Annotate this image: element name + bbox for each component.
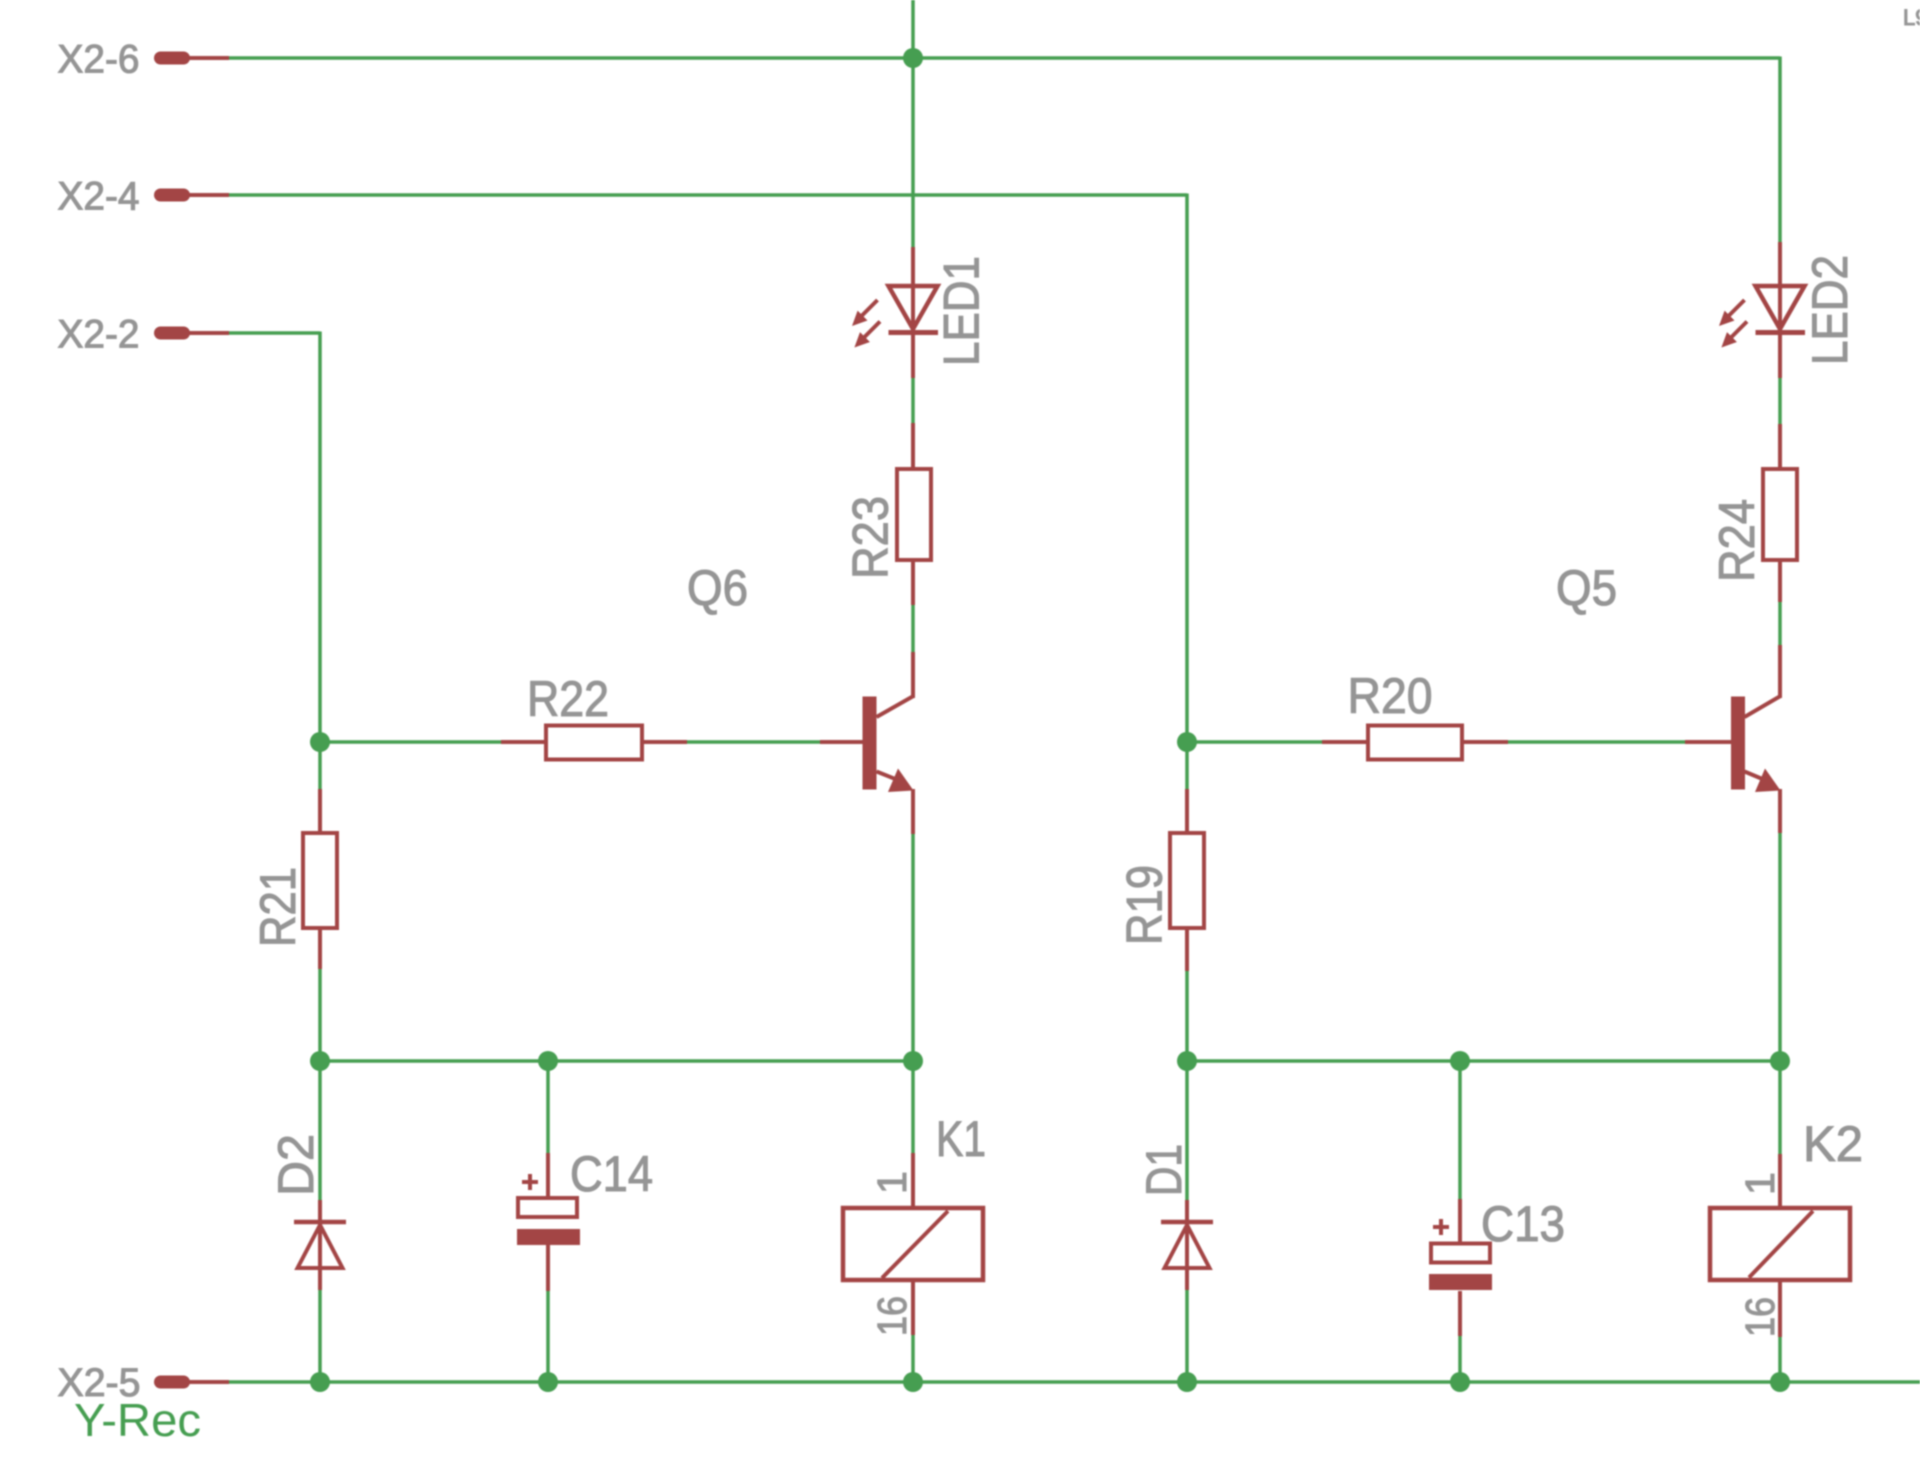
wire node to K2 pin 1 [1778,1061,1782,1154]
wire LED1 drop from X2-6 junction [911,58,915,247]
svg-text:D2: D2 [268,1134,324,1196]
node A junction (X2-2, R21, R22) [310,732,330,752]
wire R24 to Q5 collector [1778,602,1782,645]
node junction bottom rail at C14 [538,1372,558,1392]
transistor Q6 [820,652,914,834]
capacitor C13 [1429,1199,1492,1336]
wire X2-5 bottom rail Y-Rec [228,1380,1920,1384]
svg-text:R22: R22 [527,671,609,727]
connector pin X2-4 [154,189,229,202]
svg-text:K1: K1 [936,1111,986,1167]
wire node to D2 [318,1061,322,1200]
transistor Q5 [1685,645,1781,833]
wire LED1 to R23 [911,378,915,423]
svg-text:X2-6: X2-6 [58,38,140,82]
wire K1 pin 16 to bottom rail [911,1335,915,1382]
svg-text:R19: R19 [1117,865,1173,945]
svg-text:X2-2: X2-2 [58,313,140,357]
node junction X2-6/LED1 [903,48,923,68]
wire node to C14 [546,1061,550,1153]
wire LED2 to R24 [1778,378,1782,424]
wire Q6 emitter down to node C [911,834,915,1061]
svg-text:R20: R20 [1348,668,1433,724]
node junction left bus at C14 [538,1051,558,1071]
relay coil K1 [843,1153,983,1335]
wire R21 to node row [318,969,322,1061]
svg-text:Y-Rec: Y-Rec [74,1394,201,1446]
node junction bottom rail at C13 [1450,1372,1470,1392]
resistor R21 [303,789,337,969]
diode D1 [1161,1200,1213,1290]
svg-text:R21: R21 [250,867,306,947]
wire node B to R20 [1187,740,1322,744]
resistor R22 [501,726,687,760]
svg-text:X2-4: X2-4 [58,175,140,219]
node junction right bus at K2 [1770,1051,1790,1071]
wire node to C13 [1458,1061,1462,1199]
svg-text:Q6: Q6 [687,560,748,616]
wire node A down to R21 [318,742,322,789]
diode D2 [294,1200,346,1290]
wire D2 to bottom rail [318,1290,322,1382]
connector pin X2-5 [154,1376,229,1389]
wire R20 to Q5 base [1508,740,1685,744]
wire node to K1 pin 1 [911,1061,915,1153]
svg-text:C13: C13 [1481,1196,1565,1252]
svg-text:Q5: Q5 [1556,560,1617,616]
svg-text:LED1: LED1 [934,256,990,366]
LED LED2 [1719,242,1805,378]
wire X2-2 horizontal [228,331,320,335]
wire X2-2 vertical drop to base node A [318,332,322,743]
wire Q5 emitter down to node D [1778,833,1782,1061]
wire R22 to Q6 base [687,740,820,744]
svg-text:C14: C14 [570,1146,653,1202]
connector pin X2-2 [154,327,229,340]
svg-text:1: 1 [869,1171,915,1194]
node junction bottom rail at K2 [1770,1372,1790,1392]
svg-text:R23: R23 [843,496,899,579]
wire X2-6 horizontal rail [228,56,1780,60]
wire D1 to bottom rail [1185,1290,1189,1382]
wire LED2 drop from X2-6 rail [1778,57,1782,243]
resistor R24 [1763,424,1797,602]
resistor R20 [1322,726,1508,760]
wire R23 to Q6 collector [911,605,915,652]
wire right bus row (R19/D1 - C13 - K2) [1187,1059,1780,1063]
wire node to D1 [1185,1061,1189,1200]
node junction left bus at R21/D2 [310,1051,330,1071]
resistor R23 [897,423,931,605]
wire X2-6 top vertical feed [911,0,915,58]
svg-text:1: 1 [1737,1172,1783,1195]
svg-text:L9: L9 [1903,5,1920,30]
wire X2-4 vertical drop to base node B [1185,194,1189,743]
capacitor C14 [517,1153,580,1291]
wire node B down to R19 [1185,742,1189,789]
wire left bus row (R21/D2 - C14 - K1) [320,1059,913,1063]
wire K2 pin 16 to bottom rail [1778,1337,1782,1382]
wire R19 to node row [1185,971,1189,1061]
node B junction (X2-4, R19, R20) [1177,732,1197,752]
svg-text:16: 16 [869,1296,915,1336]
node junction bottom rail at K1 [903,1372,923,1392]
svg-text:K2: K2 [1803,1116,1863,1172]
node junction bottom rail at D2 [310,1372,330,1392]
node junction bottom rail at D1 [1177,1372,1197,1392]
connector pin X2-6 [154,52,229,65]
wire X2-4 horizontal rail [228,193,1187,197]
node junction right bus at C13 [1450,1051,1470,1071]
relay coil K2 [1710,1154,1850,1337]
svg-text:R24: R24 [1709,499,1765,582]
node junction left bus at K1 [903,1051,923,1071]
svg-text:LED2: LED2 [1802,255,1858,365]
wire C13 to bottom rail [1458,1336,1462,1382]
LED LED1 [852,247,938,378]
svg-text:D1: D1 [1136,1144,1192,1196]
resistor R19 [1170,789,1204,971]
wire C14 to bottom rail [546,1291,550,1382]
wire node A to R22 [320,740,501,744]
svg-text:16: 16 [1737,1297,1783,1337]
node junction right bus at R19/D1 [1177,1051,1197,1071]
